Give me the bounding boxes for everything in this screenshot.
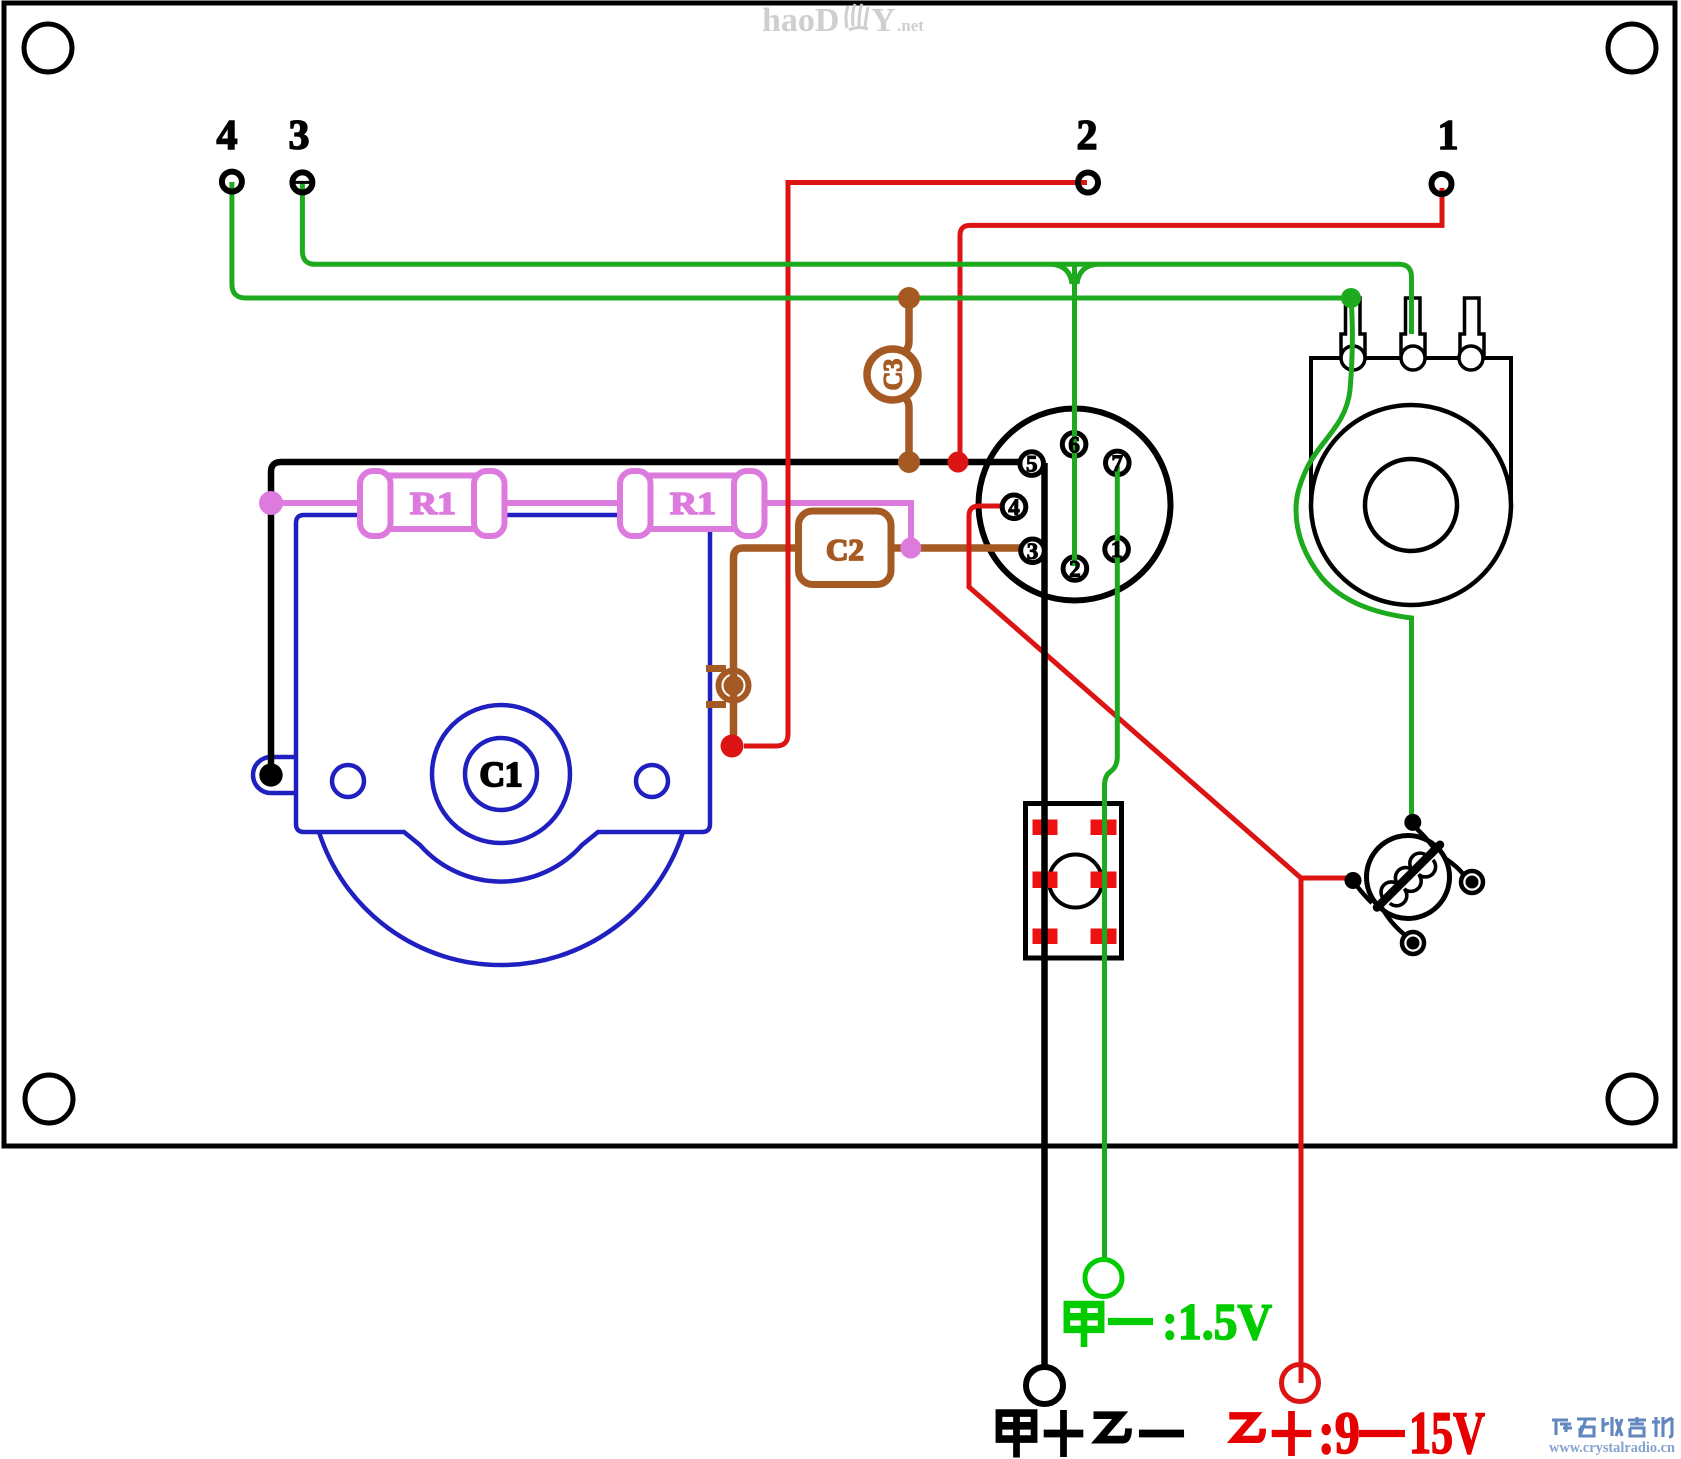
- svg-text:5: 5: [1026, 452, 1038, 477]
- svg-text::9: :9: [1318, 1400, 1360, 1459]
- variable capacitor C1 body: [253, 515, 710, 965]
- resistor R1 (first): [360, 471, 505, 536]
- svg-text:3: 3: [1027, 539, 1039, 564]
- socket pin 6: [1062, 433, 1086, 457]
- svg-text:haoD: haoD: [762, 2, 839, 39]
- B+ terminal circle: [1282, 1365, 1319, 1402]
- label: A+ B- (black): [999, 1410, 1184, 1457]
- socket pin 4: [1002, 495, 1026, 519]
- trimmer plates scallops lower: [1390, 860, 1436, 906]
- battery pad mid-left: [1033, 872, 1058, 889]
- socket pin 7: [1106, 451, 1130, 475]
- wire: green from terminal 4 to transformer pin (left): [232, 182, 1351, 298]
- socket pin 1: [1105, 537, 1129, 561]
- trimmer top terminal dot: [1404, 814, 1421, 831]
- svg-text:C1: C1: [480, 755, 523, 794]
- svg-text:2: 2: [1077, 113, 1098, 159]
- junction dot: brown on green wire: [898, 287, 920, 309]
- mounting hole bottom-right: [1608, 1075, 1656, 1123]
- svg-text:4: 4: [1008, 495, 1020, 520]
- resistor R1 (second): [620, 471, 765, 536]
- socket pin 5: [1020, 452, 1044, 476]
- wire: C2 right lead to socket pin 3: [891, 544, 1021, 552]
- junction dot: red at C1 stator lug: [721, 735, 744, 758]
- terminal ring 1: [1432, 174, 1452, 194]
- wire: red from socket pin 4 diagonal to trimmer and B+ terminal: [969, 506, 1348, 1383]
- C1 stator lug stubs: [706, 669, 726, 705]
- C1 rotor half-disc: [319, 832, 683, 965]
- svg-text:.net: .net: [897, 16, 924, 35]
- svg-text:15V: 15V: [1409, 1400, 1485, 1459]
- tube socket body: [979, 409, 1171, 601]
- svg-text:C3: C3: [879, 359, 908, 391]
- transformer pin 2 (middle): [1401, 298, 1425, 370]
- trimmer bottom terminal lug: [1402, 932, 1424, 954]
- socket pin 3: [1021, 539, 1045, 563]
- trimmer rotor bar: [1377, 845, 1440, 908]
- svg-text:6: 6: [1068, 432, 1080, 457]
- battery pad bottom-left: [1033, 929, 1058, 945]
- terminal ring 4: [222, 172, 242, 192]
- terminal ring 2: [1078, 173, 1098, 193]
- trimmer left terminal lead: [1357, 886, 1372, 903]
- green fork fillets at socket branch: [1052, 264, 1097, 284]
- trimmer right terminal lead: [1446, 859, 1464, 875]
- svg-text:R1: R1: [410, 485, 456, 521]
- wire: red from terminal 2 down to C1 stator lug: [744, 183, 1087, 747]
- svg-text:R1: R1: [670, 485, 716, 521]
- trimmer left terminal dot: [1345, 872, 1362, 889]
- terminal 3 cross tick: [294, 181, 311, 184]
- C1 shaft inner circle: [465, 738, 537, 810]
- wire: green from transformer left pin around core to trimmer: [1296, 298, 1412, 823]
- board outline: [4, 3, 1675, 1146]
- wire: black from socket pin 5 down to A+B- terminal: [1041, 463, 1048, 1367]
- svg-text:Y: Y: [871, 2, 896, 39]
- wire: black bus from C1 tab up and right to socket pin 5: [271, 462, 1020, 775]
- battery pad top-right: [1091, 820, 1117, 836]
- wire: C2 left lead down to C1 stator lug: [734, 548, 799, 740]
- label: A- 1.5V (green): [1067, 1304, 1153, 1347]
- transformer T body: [1311, 358, 1511, 605]
- battery holder body: [1026, 804, 1122, 959]
- svg-text:1: 1: [1438, 113, 1459, 159]
- wire: green from terminal 3 to transformer pin (middle): [302, 182, 1411, 334]
- svg-text:4: 4: [217, 113, 238, 159]
- capacitor C3 body: [867, 349, 918, 400]
- battery holder center circle: [1049, 855, 1102, 908]
- haoDIY.net logo: [762, 2, 924, 39]
- transformer pin 3 (right): [1459, 298, 1484, 370]
- C1 mounting hole left: [332, 765, 364, 797]
- junction dot: brown on black bus: [898, 451, 920, 473]
- trimmer plates scallops upper: [1381, 853, 1427, 899]
- wire: green from socket pin 7 / pin 1 down to A- terminal: [1105, 466, 1118, 1259]
- junction dot: black at C1 tab: [259, 763, 282, 786]
- junction dot: green at transformer pin 1: [1341, 288, 1361, 308]
- svg-text:1: 1: [1111, 537, 1123, 562]
- label: B+ 9-15V (red): [1229, 1411, 1405, 1456]
- junction dot: red on black bus: [948, 452, 969, 473]
- capacitor C3 leads: [899, 300, 909, 460]
- svg-text:3: 3: [289, 113, 310, 159]
- A+B- terminal circle: [1026, 1367, 1063, 1404]
- C1 stator lug ring: [719, 671, 749, 701]
- A- terminal circle: [1085, 1260, 1122, 1297]
- C1 stator lug center dot: [724, 676, 744, 696]
- battery pad mid-right: [1091, 872, 1117, 889]
- junction dot: pink at C2/pin3 wire: [900, 538, 921, 559]
- wire: pink net from black bus to R1 chain: [271, 503, 911, 548]
- mounting hole top-left: [24, 24, 72, 72]
- svg-text:www.crystalradio.cn: www.crystalradio.cn: [1549, 1440, 1676, 1456]
- svg-text:7: 7: [1112, 451, 1124, 476]
- svg-text:C2: C2: [826, 532, 864, 567]
- mounting hole top-right: [1608, 24, 1656, 72]
- socket pin 2: [1063, 557, 1087, 581]
- capacitor C2 body: [799, 511, 892, 585]
- mounting hole bottom-left: [25, 1075, 73, 1123]
- C1 mounting hole right: [636, 765, 668, 797]
- terminal ring 3: [292, 172, 312, 192]
- battery pad bottom-right: [1091, 929, 1117, 945]
- svg-text:2: 2: [1069, 557, 1081, 582]
- transformer pin 1 (left): [1341, 298, 1365, 370]
- junction dot: pink on black wire: [259, 491, 283, 515]
- battery pad top-left: [1033, 820, 1058, 836]
- trimmer capacitor body: [1367, 836, 1450, 919]
- svg-text::1.5V: :1.5V: [1162, 1294, 1272, 1351]
- C1 shaft outer circle: [432, 705, 570, 843]
- C1 left tab: [253, 757, 296, 793]
- wire: red from terminal 1 down-left to junction on black bus: [960, 188, 1442, 460]
- trimmer right terminal lug: [1461, 871, 1483, 893]
- watermark: crystalradio.cn: [1552, 1417, 1672, 1437]
- wire: green socket branch to pin 2: [1072, 266, 1077, 566]
- trimmer bottom terminal lead: [1382, 908, 1405, 935]
- trimmer top terminal lead: [1416, 828, 1433, 847]
